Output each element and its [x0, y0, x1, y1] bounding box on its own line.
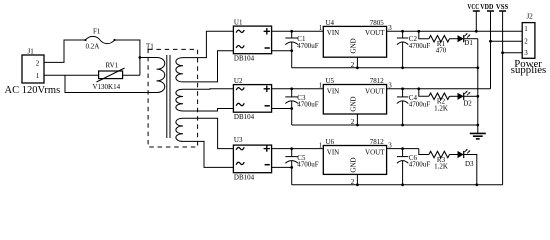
capacitor C6 4700uF — [402, 149, 404, 157]
svg-text:DB104: DB104 — [234, 55, 255, 63]
wire D2 cathode — [464, 95, 478, 97]
svg-text:4700uF: 4700uF — [297, 160, 319, 168]
wire U4 VOUT to J2 pin 1 — [387, 30, 523, 32]
wire U4 GND pin — [356, 57, 358, 68]
svg-text:RV1: RV1 — [106, 62, 119, 70]
wire U6 VOUT — [387, 148, 419, 150]
svg-text:D1: D1 — [464, 39, 473, 47]
svg-text:U3: U3 — [234, 136, 243, 144]
wire J1 pin2 to F1 — [44, 40, 85, 62]
svg-text:2: 2 — [36, 59, 40, 67]
svg-text:VOUT: VOUT — [365, 87, 385, 95]
svg-text:4700uF: 4700uF — [409, 42, 431, 50]
wire to resistor R2 — [419, 89, 429, 97]
svg-text:VOUT: VOUT — [365, 29, 385, 37]
resistor R1 470 — [429, 36, 450, 42]
svg-text:DB104: DB104 — [234, 174, 255, 182]
wire U3 + to U6 VIN — [272, 148, 324, 150]
svg-text:J2: J2 — [527, 13, 534, 21]
wire U6 GND pin — [356, 174, 358, 184]
fuse F1 — [84, 39, 86, 41]
wire VSS to J2 pin 3 — [503, 52, 523, 54]
wire RV1 right — [123, 74, 140, 76]
svg-text:1.2K: 1.2K — [434, 163, 448, 171]
wire D3 cathode — [464, 155, 477, 185]
svg-text:2: 2 — [524, 37, 528, 45]
wire D1 cathode — [464, 38, 478, 40]
wire T1 sec3 bottom to U3 — [183, 141, 233, 167]
svg-text:GND: GND — [349, 157, 357, 172]
svg-text:F1: F1 — [93, 28, 101, 36]
svg-text:1.2K: 1.2K — [434, 104, 448, 112]
connector J2 — [522, 23, 535, 59]
bridge rectifier U2 — [233, 85, 271, 113]
svg-text:1: 1 — [319, 24, 323, 32]
wire VDD to J2 pin 2 — [491, 40, 523, 42]
net VSS rail — [499, 10, 506, 12]
wire U5 VOUT to VDD — [387, 88, 491, 90]
wire U1 &#8722; output — [272, 50, 292, 52]
svg-text:4700uF: 4700uF — [297, 101, 319, 109]
capacitor C2 4700uF — [402, 31, 404, 38]
wire to resistor R3 — [419, 149, 429, 155]
ground rail row 3 — [292, 184, 503, 186]
wire J1 pin1 to RV1 — [44, 74, 99, 76]
svg-text:VOUT: VOUT — [365, 148, 385, 156]
resistor R2 1.2K — [429, 93, 450, 99]
ground — [477, 125, 479, 133]
svg-text:1: 1 — [319, 82, 323, 90]
varistor RV1 — [99, 71, 123, 79]
wire U2 + to U5 VIN — [272, 88, 324, 90]
svg-text:7812: 7812 — [370, 138, 385, 146]
resistor R3 1.2K — [429, 151, 450, 157]
wire U3 &#8722; output — [272, 166, 292, 168]
wire R1 to D1 — [450, 38, 458, 40]
svg-text:VIN: VIN — [327, 87, 339, 95]
wire T1 sec1 bottom to U1 — [183, 51, 233, 82]
svg-text:U2: U2 — [234, 77, 243, 85]
svg-text:VDD: VDD — [480, 4, 493, 11]
LED D2 — [458, 93, 464, 100]
wire U1 + to U4 VIN — [272, 30, 324, 32]
LED D3 — [458, 151, 464, 158]
svg-text:VIN: VIN — [327, 29, 339, 37]
ground vertical — [477, 39, 479, 125]
transformer primary winding — [157, 58, 165, 93]
wire T1 sec1 top to U1 — [183, 31, 233, 57]
wire to resistor R1 — [419, 31, 429, 38]
LED D1 — [458, 35, 464, 42]
svg-text:1: 1 — [524, 25, 528, 33]
svg-text:supplies: supplies — [511, 64, 546, 76]
connector J1 — [22, 55, 44, 83]
svg-text:1: 1 — [36, 72, 40, 80]
net VDD rail — [487, 10, 494, 12]
voltage regulator U4 7805 — [323, 26, 386, 57]
svg-text:D2: D2 — [463, 100, 472, 108]
wire J1 pin1 to T1 primary bottom — [65, 75, 157, 92]
svg-text:4700uF: 4700uF — [409, 101, 431, 109]
svg-text:U4: U4 — [326, 19, 335, 27]
svg-text:3: 3 — [524, 49, 528, 57]
svg-text:GND: GND — [349, 96, 357, 111]
capacitor C3 4700uF — [291, 89, 293, 97]
svg-text:DB104: DB104 — [234, 113, 255, 121]
svg-text:7805: 7805 — [370, 19, 385, 27]
wire R2 to D2 — [450, 95, 458, 97]
bridge rectifier U3 — [233, 145, 271, 173]
svg-text:470: 470 — [436, 47, 447, 55]
svg-text:7812: 7812 — [370, 77, 385, 85]
wire R3 to D3 — [450, 154, 458, 156]
svg-text:D3: D3 — [465, 160, 474, 168]
svg-text:4700uF: 4700uF — [409, 160, 431, 168]
transformer secondary 1 — [176, 58, 183, 82]
svg-text:U1: U1 — [234, 19, 243, 27]
voltage regulator U6 7812 — [323, 146, 386, 175]
svg-text:VSS: VSS — [496, 4, 509, 11]
voltage regulator U5 7812 — [323, 85, 386, 115]
svg-text:U6: U6 — [326, 138, 335, 146]
transformer T1 dashed box — [148, 49, 198, 147]
svg-text:0.2A: 0.2A — [86, 43, 100, 51]
svg-text:U5: U5 — [326, 77, 335, 85]
svg-text:AC 120Vrms: AC 120Vrms — [5, 85, 61, 96]
transformer core — [166, 55, 168, 138]
ground rail row 2 — [292, 124, 478, 126]
svg-text:J1: J1 — [28, 48, 35, 56]
svg-text:V130K14: V130K14 — [93, 83, 121, 91]
transformer secondary 2 — [176, 89, 183, 111]
net VCC rail — [473, 10, 480, 12]
svg-text:4700uF: 4700uF — [297, 42, 319, 50]
ground rail row 1 — [292, 67, 478, 69]
wire F1 to T1 primary top — [115, 40, 140, 75]
svg-text:1: 1 — [319, 141, 323, 149]
transformer secondary 3 — [176, 118, 183, 141]
wire U2 &#8722; output — [272, 108, 292, 110]
wire to primary top — [140, 57, 157, 59]
wire T1 sec2 bottom to U2 — [183, 109, 233, 112]
svg-text:GND: GND — [349, 38, 357, 53]
bridge rectifier U1 — [233, 26, 271, 54]
svg-text:VCC: VCC — [467, 4, 479, 11]
wire T1 sec3 top to U3 — [183, 118, 233, 148]
capacitor C1 4700uF — [291, 31, 293, 38]
svg-text:VIN: VIN — [327, 148, 339, 156]
wire U5 GND pin — [356, 114, 358, 125]
capacitor C5 4700uF — [291, 149, 293, 157]
capacitor C4 4700uF — [402, 89, 404, 97]
wire T1 sec2 top to U2 — [183, 88, 233, 90]
